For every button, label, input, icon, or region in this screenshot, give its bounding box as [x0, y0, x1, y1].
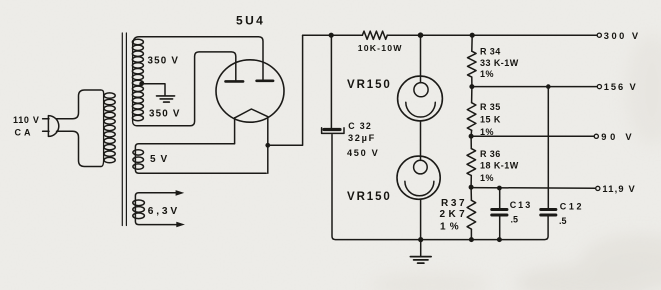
regulator tube VR150 lower envelope: [397, 156, 440, 199]
rectifier tube 5U4 envelope: [216, 60, 284, 122]
svg-text:10K-10W: 10K-10W: [358, 43, 403, 53]
5U4 left plate: [226, 80, 244, 83]
terminal 156V: [597, 85, 601, 89]
VR150 upper cathode arc: [406, 102, 436, 117]
svg-text:VR150: VR150: [347, 191, 392, 203]
wire VR150 stem from rail: [420, 35, 422, 82]
transformer primary winding: [101, 90, 115, 167]
resistor R35: [467, 103, 476, 131]
resistor R36: [467, 149, 476, 176]
6.3V winding (spine + terminals): [135, 193, 176, 225]
node R34 branch: [470, 33, 475, 38]
terminal 90V: [594, 134, 598, 138]
capacitor C13: [492, 210, 507, 216]
svg-text:15 K: 15 K: [480, 115, 501, 125]
svg-text:156 V: 156 V: [604, 82, 638, 92]
5U4 right plate: [257, 80, 274, 83]
5U4 filament: [235, 109, 268, 118]
transformer core: [122, 33, 126, 226]
svg-text:1%: 1%: [480, 173, 494, 183]
ground (main): [410, 240, 431, 264]
wire 5U4 filament left leg to 5V winding: [234, 118, 236, 144]
wire 156V tap: [472, 86, 597, 88]
svg-text:CA: CA: [15, 127, 34, 137]
wire center tap to ground: [142, 84, 165, 96]
svg-text:90 V: 90 V: [601, 132, 635, 142]
svg-text:5V: 5V: [150, 154, 172, 165]
capacitor C32 bottom plate (bracket): [322, 128, 344, 134]
svg-text:C12: C12: [560, 202, 584, 212]
capacitor C12: [541, 210, 556, 216]
node 11.9V: [469, 185, 474, 190]
resistor 10K-10W: [362, 31, 387, 39]
wire node to R36: [470, 136, 472, 148]
wire between VR150 tubes: [420, 121, 422, 161]
node center tap: [139, 82, 144, 87]
ground (center tap): [157, 96, 175, 102]
svg-text:.5: .5: [559, 216, 567, 226]
wire primary bottom (plug to primary winding): [57, 131, 102, 166]
svg-text:2K7: 2K7: [440, 209, 469, 220]
svg-text:18 K-1W: 18 K-1W: [480, 161, 519, 171]
svg-text:1%: 1%: [440, 221, 463, 232]
svg-text:.5: .5: [511, 215, 519, 225]
node bottom rail / ground: [418, 237, 423, 242]
wire 90V tap: [471, 135, 594, 137]
terminal 300V: [597, 33, 601, 37]
VR150 upper anode circle: [414, 83, 428, 97]
svg-text:110 V: 110 V: [13, 115, 40, 125]
regulator tube VR150 upper envelope: [398, 76, 443, 121]
wire C32 to bottom rail / bottom rail to C12: [332, 135, 548, 240]
plug P1 (110V CA): [43, 116, 59, 137]
wire C32 branch down: [330, 35, 332, 127]
wire C13 stem top: [499, 188, 501, 208]
svg-text:33 K-1W: 33 K-1W: [480, 58, 519, 68]
svg-text:C13: C13: [510, 200, 533, 210]
svg-text:300 V: 300 V: [604, 31, 641, 41]
node C13 bottom: [497, 237, 502, 242]
arrow 6.3V top: [176, 190, 185, 196]
wire R36 to node 11.9V: [470, 176, 472, 188]
wire C13 stem bottom: [499, 216, 501, 239]
6.3V winding loops: [133, 200, 145, 219]
wire 350V bottom to 5U4 left plate: [137, 52, 236, 126]
node 90V: [469, 134, 474, 139]
svg-text:VR150: VR150: [347, 79, 392, 91]
svg-text:C 32: C 32: [348, 121, 372, 131]
svg-text:11,9 V: 11,9 V: [602, 184, 636, 194]
resistor R34: [467, 51, 476, 77]
wire node to R37: [470, 187, 472, 200]
svg-text:5U4: 5U4: [236, 14, 265, 28]
resistor R37: [467, 200, 476, 229]
wire B+ takeoff to top rail: [268, 35, 303, 145]
svg-text:R 34: R 34: [480, 47, 501, 57]
terminal 11.9V: [596, 186, 600, 190]
wire 350V top to 5U4 right plate: [133, 37, 263, 80]
wire rail to R34: [471, 35, 473, 51]
wire R35 to node 90V: [470, 130, 473, 136]
wire C12 stem (from 156V node down): [547, 87, 549, 208]
secondary 350-0-350 loops: [132, 39, 143, 120]
svg-text:350 V: 350 V: [148, 56, 180, 67]
node R37 bottom: [469, 237, 474, 242]
wire node to R35: [471, 87, 473, 103]
svg-text:32µF: 32µF: [348, 133, 376, 143]
wire R37 to bottom rail: [470, 229, 472, 240]
node VR150 branch: [418, 32, 424, 38]
node C12 branch: [546, 84, 551, 89]
capacitor C32 top plate: [324, 128, 340, 131]
wire VR150 lower to bottom rail: [420, 199, 422, 239]
wire 5U4 filament right leg to 5V winding: [267, 117, 269, 173]
top rail left segment: [303, 34, 363, 36]
svg-text:R 36: R 36: [480, 149, 501, 159]
VR150 lower cathode arc: [405, 181, 434, 196]
svg-text:6,3V: 6,3V: [148, 206, 180, 217]
top rail right segment to 300V terminal: [387, 34, 597, 36]
VR150 lower anode circle: [414, 160, 428, 174]
5V winding loops: [133, 150, 144, 170]
arrow 6.3V bottom: [176, 222, 185, 228]
node 156V: [469, 84, 474, 89]
wire primary top (plug to primary winding): [57, 90, 102, 119]
svg-text:R 35: R 35: [480, 102, 501, 112]
svg-text:1%: 1%: [480, 69, 494, 79]
5V winding (spine + terminals): [135, 144, 266, 174]
node B+ takeoff: [265, 143, 270, 148]
node C13 branch: [497, 186, 502, 191]
svg-text:1%: 1%: [480, 127, 494, 137]
wire 11.9V tap: [471, 187, 595, 190]
wire R34 to node 156V: [471, 77, 473, 87]
svg-text:350 V: 350 V: [149, 108, 181, 119]
node C32 branch: [329, 33, 334, 38]
secondary 350-0-350 winding spine: [133, 41, 137, 126]
svg-text:R37: R37: [441, 198, 467, 209]
svg-text:450 V: 450 V: [347, 148, 380, 158]
